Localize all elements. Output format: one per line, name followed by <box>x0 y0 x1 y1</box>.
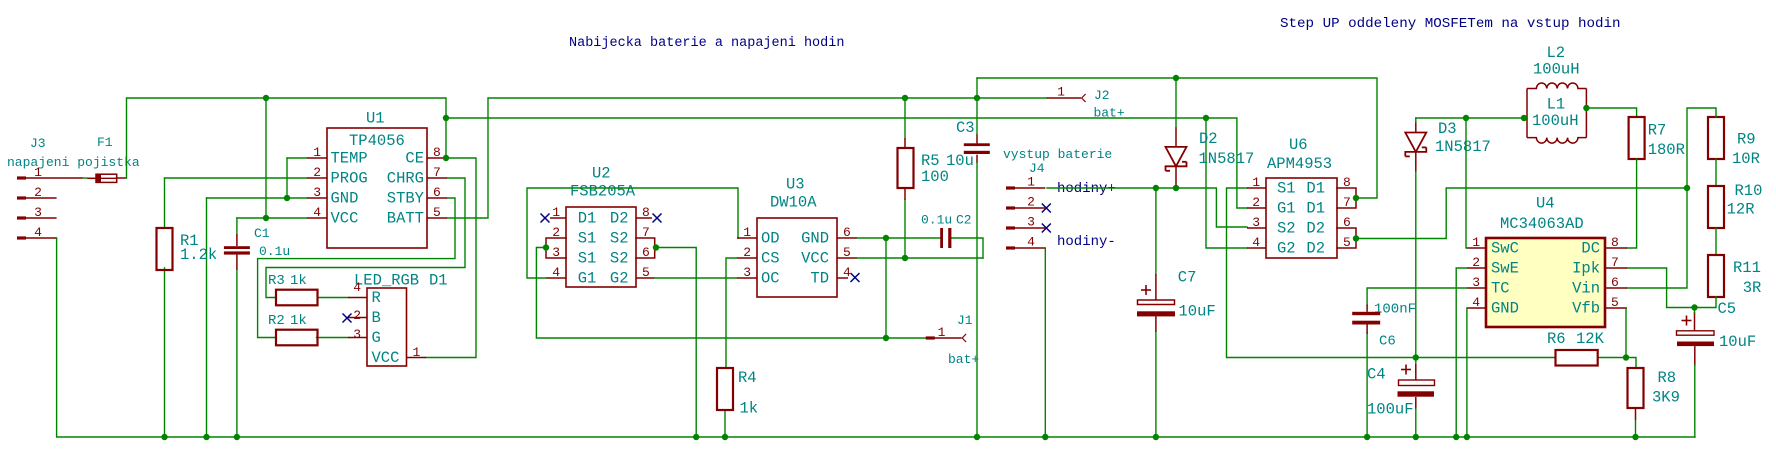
svg-text:8: 8 <box>433 145 441 160</box>
capacitor C6 100nF <box>1352 302 1416 350</box>
svg-text:hodiny-: hodiny- <box>1057 234 1116 250</box>
no-connect <box>851 273 860 282</box>
svg-text:U6: U6 <box>1289 136 1308 154</box>
svg-text:100nF: 100nF <box>1374 302 1416 318</box>
svg-text:C5: C5 <box>1718 300 1737 318</box>
capacitor C5 10uF <box>1677 300 1757 366</box>
svg-text:10R: 10R <box>1732 150 1760 168</box>
svg-text:S1: S1 <box>1277 180 1296 198</box>
wire <box>1635 420 1637 437</box>
svg-text:DW10A: DW10A <box>770 194 817 212</box>
svg-text:G: G <box>372 329 381 347</box>
wire <box>656 248 696 438</box>
svg-text:3K9: 3K9 <box>1652 389 1680 407</box>
svg-text:R8: R8 <box>1658 369 1677 387</box>
wire <box>83 177 87 179</box>
connector J3 napajeni pojistka <box>7 136 140 240</box>
svg-text:6: 6 <box>1611 275 1619 290</box>
wire <box>904 200 906 258</box>
svg-text:B: B <box>372 309 381 327</box>
capacitor C3 10u <box>946 119 990 170</box>
junction <box>1364 434 1370 440</box>
wire <box>1415 409 1417 437</box>
wire <box>1155 188 1157 274</box>
wire <box>1526 89 1528 138</box>
wire <box>1625 308 1627 358</box>
wire <box>1715 159 1717 186</box>
connector J2 bat+ <box>1047 85 1125 121</box>
svg-text:Nabijecka baterie a napajeni h: Nabijecka baterie a napajeni hodin <box>569 36 844 51</box>
svg-text:R9: R9 <box>1737 131 1756 149</box>
svg-text:4: 4 <box>34 225 42 240</box>
svg-text:1: 1 <box>34 165 42 180</box>
svg-text:J1: J1 <box>957 313 973 328</box>
resistor R5 100 <box>898 138 949 200</box>
svg-text:1N5817: 1N5817 <box>1435 138 1491 156</box>
connector J1 bat+ <box>926 313 980 367</box>
svg-text:1N5817: 1N5817 <box>1199 150 1255 168</box>
junction <box>693 434 699 440</box>
svg-text:Vin: Vin <box>1572 280 1600 298</box>
svg-text:U3: U3 <box>786 176 805 194</box>
svg-text:3: 3 <box>1252 215 1260 230</box>
svg-text:S2: S2 <box>610 230 629 248</box>
svg-text:OC: OC <box>761 270 780 288</box>
svg-text:12K: 12K <box>1576 330 1605 348</box>
svg-text:12R: 12R <box>1727 201 1755 219</box>
svg-text:LED_RGB: LED_RGB <box>354 272 419 290</box>
wire <box>1586 108 1636 117</box>
junction <box>1153 185 1159 191</box>
svg-text:S2: S2 <box>610 250 629 268</box>
svg-text:3: 3 <box>1472 275 1480 290</box>
capacitor C7 10uF <box>1137 269 1216 333</box>
wire <box>164 178 166 228</box>
junction <box>1463 115 1469 121</box>
svg-text:TP4056: TP4056 <box>349 132 405 150</box>
svg-text:4: 4 <box>1252 235 1260 250</box>
svg-text:7: 7 <box>433 165 441 180</box>
svg-text:J2: J2 <box>1094 88 1110 103</box>
svg-text:4: 4 <box>552 265 560 280</box>
svg-text:D2: D2 <box>1306 220 1325 238</box>
junction <box>1632 434 1638 440</box>
svg-text:1: 1 <box>1057 85 1065 100</box>
capacitor C2 0.1u <box>921 213 972 249</box>
svg-text:R3: R3 <box>268 273 285 289</box>
svg-text:3R: 3R <box>1743 279 1762 297</box>
junction <box>883 335 889 341</box>
svg-text:U1: U1 <box>366 110 385 128</box>
svg-text:VCC: VCC <box>331 210 359 228</box>
IC U6 APM4953 <box>1247 136 1356 258</box>
no-connect <box>541 214 550 223</box>
svg-text:4: 4 <box>1027 235 1035 250</box>
svg-text:U4: U4 <box>1536 195 1555 213</box>
svg-text:4: 4 <box>353 280 361 295</box>
resistor R7 180R <box>1629 117 1685 159</box>
svg-text:3: 3 <box>743 265 751 280</box>
svg-text:10uF: 10uF <box>1719 333 1756 351</box>
svg-text:2: 2 <box>1252 195 1260 210</box>
fuse F1 <box>87 135 127 182</box>
wire <box>1456 268 1467 437</box>
junction <box>263 215 269 221</box>
junction <box>1453 434 1459 440</box>
junction <box>1173 185 1179 191</box>
svg-text:10uF: 10uF <box>1179 303 1216 321</box>
wire <box>446 118 1247 208</box>
svg-text:1k: 1k <box>290 273 307 289</box>
wire <box>206 198 208 437</box>
junction <box>902 255 908 261</box>
svg-text:R2: R2 <box>268 313 285 329</box>
svg-text:FSB205A: FSB205A <box>570 183 636 201</box>
wire <box>266 178 465 298</box>
svg-text:1: 1 <box>743 225 751 240</box>
svg-text:1: 1 <box>1252 175 1260 190</box>
svg-text:3: 3 <box>552 245 560 260</box>
wire <box>1466 118 1467 248</box>
junction <box>722 434 728 440</box>
wire <box>165 177 308 179</box>
svg-text:napajeni pojistka: napajeni pojistka <box>7 155 140 170</box>
svg-text:hodiny+: hodiny+ <box>1057 181 1116 197</box>
no-connect <box>653 214 662 223</box>
capacitor C1 0.1u <box>224 226 290 270</box>
svg-text:Step UP oddeleny MOSFETem na v: Step UP oddeleny MOSFETem na vstup hodin <box>1280 16 1621 32</box>
svg-text:C4: C4 <box>1367 366 1386 384</box>
svg-text:bat+: bat+ <box>948 352 979 367</box>
resistor R9 10R <box>1708 117 1760 168</box>
svg-text:0.1u: 0.1u <box>259 244 290 259</box>
svg-text:G2: G2 <box>610 270 629 288</box>
IC U3 DW10A <box>737 176 857 298</box>
junction <box>883 235 889 241</box>
resistor R4 1k <box>717 368 758 418</box>
junction <box>974 95 980 101</box>
svg-text:4: 4 <box>843 265 851 280</box>
junction <box>443 115 449 121</box>
junction <box>1153 434 1159 440</box>
svg-text:1k: 1k <box>740 400 759 418</box>
wire <box>1627 159 1637 248</box>
svg-text:PROG: PROG <box>331 170 368 188</box>
wire <box>951 238 984 258</box>
wire <box>885 238 887 338</box>
inductor L2 100uH <box>1527 44 1586 89</box>
wire <box>857 257 983 259</box>
svg-text:2: 2 <box>1472 255 1480 270</box>
svg-text:bat+: bat+ <box>1094 106 1125 121</box>
svg-text:3: 3 <box>313 185 321 200</box>
svg-text:R6: R6 <box>1547 330 1566 348</box>
wire <box>1155 332 1157 437</box>
wire <box>265 98 267 218</box>
svg-text:U2: U2 <box>592 165 611 183</box>
svg-text:1: 1 <box>313 145 321 160</box>
svg-text:vystup baterie: vystup baterie <box>1003 147 1112 162</box>
junction <box>1353 195 1359 201</box>
svg-text:CHRG: CHRG <box>387 170 424 188</box>
svg-text:1: 1 <box>413 345 421 360</box>
junction <box>443 155 449 161</box>
svg-text:1: 1 <box>938 325 946 340</box>
junction <box>263 95 269 101</box>
svg-text:D2: D2 <box>1199 130 1218 148</box>
resistor R2 1k <box>268 313 318 345</box>
wire <box>1627 108 1716 288</box>
svg-text:4: 4 <box>313 205 321 220</box>
wire <box>318 297 349 299</box>
wire <box>127 98 447 178</box>
svg-text:100: 100 <box>921 168 949 186</box>
svg-text:3: 3 <box>353 327 361 342</box>
svg-text:2: 2 <box>353 308 361 323</box>
junction <box>543 244 549 250</box>
svg-text:2: 2 <box>1027 195 1035 210</box>
svg-text:8: 8 <box>1343 175 1351 190</box>
svg-text:DC: DC <box>1581 240 1600 258</box>
svg-text:S1: S1 <box>578 230 597 248</box>
svg-text:5: 5 <box>1611 295 1619 310</box>
wire <box>1366 333 1368 437</box>
wire <box>1415 358 1417 365</box>
svg-text:6: 6 <box>433 185 441 200</box>
junction <box>902 95 908 101</box>
svg-text:BATT: BATT <box>387 210 424 228</box>
svg-text:2: 2 <box>34 185 42 200</box>
svg-text:180R: 180R <box>1648 141 1685 159</box>
junction <box>1684 185 1690 191</box>
junction <box>1203 115 1209 121</box>
svg-text:Vfb: Vfb <box>1572 300 1600 318</box>
IC U4 MC34063AD <box>1467 195 1627 328</box>
svg-text:5: 5 <box>1343 235 1351 250</box>
svg-text:100uH: 100uH <box>1532 112 1579 130</box>
wire <box>1627 268 1716 308</box>
svg-text:C1: C1 <box>254 226 270 241</box>
diode D3 1N5817 <box>1405 120 1491 172</box>
junction <box>653 244 659 250</box>
wire <box>976 78 978 134</box>
junction <box>161 434 167 440</box>
svg-text:R7: R7 <box>1648 122 1667 140</box>
svg-text:3: 3 <box>1027 215 1035 230</box>
svg-text:D1: D1 <box>429 272 448 290</box>
junction <box>1413 434 1419 440</box>
wire <box>977 78 1377 198</box>
svg-text:APM4953: APM4953 <box>1267 155 1332 173</box>
wire <box>1367 288 1467 305</box>
svg-text:C2: C2 <box>956 213 972 228</box>
wire <box>286 158 288 198</box>
inductor L1 100uH <box>1527 89 1586 144</box>
wire <box>1227 188 1556 358</box>
junction <box>1042 434 1048 440</box>
wire <box>857 237 941 239</box>
svg-text:GND: GND <box>801 230 829 248</box>
svg-text:Ipk: Ipk <box>1572 260 1600 278</box>
junction <box>203 434 209 440</box>
svg-text:R11: R11 <box>1733 259 1761 277</box>
wire <box>976 163 978 437</box>
wire <box>1466 308 1468 437</box>
svg-text:CE: CE <box>405 150 424 168</box>
svg-text:L1: L1 <box>1547 96 1566 114</box>
svg-text:5: 5 <box>433 205 441 220</box>
wire <box>1598 358 1636 369</box>
svg-text:8: 8 <box>642 205 650 220</box>
svg-text:CS: CS <box>761 250 780 268</box>
svg-text:J3: J3 <box>30 136 46 151</box>
junction <box>1353 235 1359 241</box>
svg-text:C3: C3 <box>956 119 975 137</box>
svg-text:6: 6 <box>642 245 650 260</box>
wire <box>1416 117 1527 119</box>
wire <box>536 248 925 339</box>
wire <box>317 337 349 339</box>
svg-text:6: 6 <box>843 225 851 240</box>
junction <box>974 434 980 440</box>
svg-text:2: 2 <box>313 165 321 180</box>
junction <box>1691 304 1697 310</box>
resistor R11 3R <box>1708 255 1761 297</box>
svg-text:5: 5 <box>642 265 650 280</box>
resistor R3 1k <box>268 273 318 305</box>
junction <box>1583 105 1589 111</box>
wire <box>726 258 737 368</box>
svg-text:L2: L2 <box>1547 44 1566 62</box>
svg-text:D1: D1 <box>1306 200 1325 218</box>
no-connect <box>1042 224 1051 233</box>
svg-text:3: 3 <box>34 205 42 220</box>
resistor R10 12R <box>1708 182 1762 228</box>
svg-text:1: 1 <box>1472 235 1480 250</box>
junction <box>234 434 240 440</box>
wire <box>1715 228 1717 255</box>
svg-text:2: 2 <box>552 225 560 240</box>
svg-text:G1: G1 <box>578 270 597 288</box>
svg-text:100uF: 100uF <box>1367 401 1414 419</box>
svg-text:D2: D2 <box>610 210 629 228</box>
svg-text:1: 1 <box>1027 175 1035 190</box>
wire <box>426 158 476 358</box>
LED D1 LED_RGB <box>348 272 448 368</box>
svg-text:F1: F1 <box>97 135 113 150</box>
svg-text:1k: 1k <box>290 313 307 329</box>
svg-text:OD: OD <box>761 230 780 248</box>
svg-text:D2: D2 <box>1306 240 1325 258</box>
junction <box>284 195 290 201</box>
junction <box>1464 434 1470 440</box>
svg-text:G1: G1 <box>1277 200 1296 218</box>
wire gnd rail <box>57 238 1695 437</box>
connector J4 vystup baterie <box>1003 147 1112 250</box>
svg-text:2: 2 <box>743 245 751 260</box>
wire <box>655 277 737 279</box>
svg-text:GND: GND <box>1491 300 1519 318</box>
resistor R8 3K9 <box>1628 368 1680 408</box>
wire <box>447 98 1047 218</box>
wire <box>287 157 307 159</box>
resistor R1 1.2k <box>157 228 218 270</box>
wire <box>236 270 238 437</box>
wire <box>258 198 455 338</box>
svg-text:TEMP: TEMP <box>331 150 368 168</box>
svg-text:VCC: VCC <box>372 349 400 367</box>
wire <box>1585 89 1587 138</box>
junction <box>1521 115 1527 121</box>
svg-text:SwC: SwC <box>1491 240 1519 258</box>
capacitor C4 100uF <box>1367 365 1435 419</box>
wire <box>1694 365 1696 437</box>
svg-text:GND: GND <box>331 190 359 208</box>
svg-text:C7: C7 <box>1178 269 1197 287</box>
svg-text:C6: C6 <box>1379 334 1396 350</box>
svg-text:MC34063AD: MC34063AD <box>1500 215 1584 233</box>
svg-text:STBY: STBY <box>387 190 425 208</box>
svg-text:D1: D1 <box>1306 180 1325 198</box>
wire <box>1175 78 1177 127</box>
no-connect <box>1042 204 1051 213</box>
wire <box>1206 118 1247 248</box>
wire <box>1415 118 1417 122</box>
wire <box>237 217 307 219</box>
wire <box>1047 188 1247 227</box>
wire <box>164 268 166 437</box>
svg-text:6: 6 <box>1343 215 1351 230</box>
svg-text:TC: TC <box>1491 280 1510 298</box>
wire <box>527 188 738 278</box>
svg-text:5: 5 <box>843 245 851 260</box>
svg-text:4: 4 <box>1472 295 1480 310</box>
svg-text:SwE: SwE <box>1491 260 1519 278</box>
svg-text:7: 7 <box>1343 195 1351 210</box>
svg-text:1.2k: 1.2k <box>180 246 217 264</box>
svg-text:G2: G2 <box>1277 240 1296 258</box>
svg-text:7: 7 <box>642 225 650 240</box>
svg-text:10u: 10u <box>946 152 974 170</box>
wire <box>1356 188 1687 239</box>
svg-text:7: 7 <box>1611 255 1619 270</box>
wire <box>904 98 906 138</box>
wire <box>207 197 308 199</box>
junction <box>1623 354 1629 360</box>
wire <box>1044 248 1046 437</box>
wire <box>1415 172 1417 358</box>
wire <box>724 410 726 437</box>
svg-text:D3: D3 <box>1438 120 1457 138</box>
junction <box>1173 75 1179 81</box>
junction <box>1413 354 1419 360</box>
svg-text:VCC: VCC <box>801 250 829 268</box>
resistor R6 12K <box>1547 330 1605 366</box>
svg-text:1: 1 <box>552 205 560 220</box>
svg-text:S2: S2 <box>1277 220 1296 238</box>
wire <box>1694 308 1696 314</box>
wire <box>236 218 238 234</box>
svg-text:S1: S1 <box>578 250 597 268</box>
diode D2 1N5817 <box>1166 127 1255 188</box>
IC U2 FSB205A <box>546 165 655 288</box>
svg-text:R: R <box>372 289 381 307</box>
svg-text:R10: R10 <box>1735 182 1763 200</box>
svg-text:TD: TD <box>810 270 829 288</box>
IC U1 TP4056 <box>307 110 447 249</box>
svg-text:D1: D1 <box>578 210 597 228</box>
svg-text:0.1u: 0.1u <box>921 213 952 228</box>
